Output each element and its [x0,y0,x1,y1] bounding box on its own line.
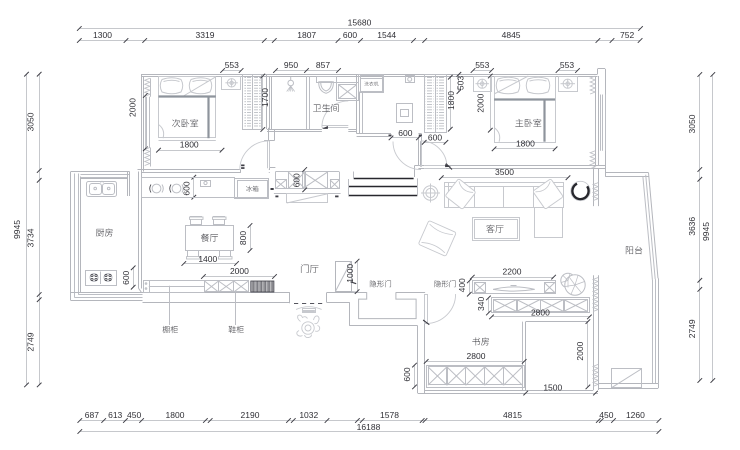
partition frame [348,179,350,197]
bed2 outline [159,77,216,138]
partition bar 3 [349,195,418,197]
svg-text:2000: 2000 [475,93,485,112]
label 隐形门 foyer [370,280,391,287]
dim overall top 15680 [79,28,640,30]
door bathroom arc [322,101,348,127]
niche rect [359,292,417,318]
label 门厅 [301,264,319,273]
svg-text:1032: 1032 [299,410,318,420]
label 厨房 [96,228,113,236]
nightstand master left [474,77,492,92]
dim 600 dining rot [193,177,195,197]
nightstand master right [559,77,578,92]
sofa seats [474,187,476,207]
wardrobe master [425,75,447,133]
wall living-balcony window mid [593,275,595,318]
svg-text:3500: 3500 [495,167,514,177]
wall bedroom2 door jamb [268,128,270,141]
svg-text:600: 600 [182,181,192,195]
door bedroom2 arc [240,141,269,170]
dim 2000 master [490,76,492,130]
foyer mirror [287,194,328,203]
dim 2000 bedroom2 [145,96,147,149]
svg-text:1700: 1700 [260,88,270,107]
wall bathroom divider [306,76,308,129]
svg-text:3636: 3636 [687,217,697,236]
wall foyer-study step [327,302,349,304]
wall kitchen right [138,172,140,289]
door bathroom arrow [322,126,328,129]
svg-text:450: 450 [599,410,613,420]
bed master quilt vertical [543,99,545,141]
dim 1800 master wardrobe [450,77,452,129]
svg-text:1544: 1544 [377,30,396,40]
dim 2800 study [426,361,524,363]
svg-text:687: 687 [85,410,99,420]
balcony corner box [612,369,642,388]
wall above niche right [396,292,425,294]
shaft box bathroom [337,83,359,101]
dim 1400 dining [184,263,237,265]
dim overall right 9945 [712,75,714,381]
window hatch left bedroom lower [145,148,150,166]
label 餐厅 [201,234,218,242]
svg-text:503: 503 [456,76,466,90]
svg-text:9945: 9945 [701,222,711,241]
entrance canopy [296,307,322,310]
dim 553 master right nightstand [558,70,578,72]
svg-text:1000: 1000 [345,264,355,283]
wall kitchen door jamb [127,172,129,197]
svg-text:400: 400 [457,278,467,292]
svg-text:752: 752 [620,30,634,40]
dim chain bottom [80,420,659,422]
fridge [235,179,269,199]
svg-text:1800: 1800 [180,140,199,150]
partition bar 1 [354,178,414,180]
bed2 quilt line [159,95,216,97]
leader 橱柜 [169,286,171,325]
dim chain right [699,75,701,381]
svg-text:800: 800 [238,231,248,245]
label 次卧室 [172,119,198,127]
svg-text:600: 600 [398,128,412,138]
dim 1000 column [357,261,359,292]
shoe cabinet hatch [251,281,274,292]
corridor cabinet [397,104,413,123]
dim overall bottom 16188 [80,431,659,433]
window hatch master lower [590,151,595,169]
svg-text:1807: 1807 [297,30,316,40]
label 冰箱 [246,186,258,192]
corridor small box [406,76,415,83]
sofa chaise [535,208,563,238]
svg-text:4815: 4815 [503,410,522,420]
svg-text:1260: 1260 [626,410,645,420]
balcony glazing right vertical [658,278,660,384]
label 鞋柜 [229,326,244,333]
bed master corner fold [494,128,500,142]
label 阳台 [626,246,642,254]
window glazing left bedroom [146,97,148,148]
svg-text:450: 450 [127,410,141,420]
window hatch study right [593,364,598,386]
dim 600 corridor [391,137,418,139]
rug living [473,218,520,241]
bed master outline [495,77,556,143]
svg-text:3050: 3050 [26,112,36,131]
window hatch master upper [590,76,595,94]
dining stool 1 [152,184,161,193]
svg-text:2000: 2000 [230,266,249,276]
bed2 pillow 2 [189,78,212,94]
svg-text:1800: 1800 [166,410,185,420]
foyer cabinet small x right [331,180,340,189]
bed2 footboard [159,140,216,142]
foyer under line [274,193,341,195]
dim 600 foyer [304,170,306,190]
door master threshold [424,165,446,167]
laundry top small lines [361,78,383,80]
wall kitchen top band [71,171,130,173]
foyer cabinet big x 2 [303,172,328,189]
bed2 quilt vertical [207,97,209,139]
dim 2800 shelf [492,316,590,318]
wall living-balcony window upper [593,169,595,207]
svg-text:600: 600 [343,30,357,40]
label 洗衣机 [364,82,378,86]
svg-text:600: 600 [428,133,442,143]
wall study right [593,319,595,391]
bed2 fold diagonal [184,77,216,96]
study bookshelf [427,366,525,388]
wall study inner vertical [525,322,527,390]
wall laundry right of bath [356,74,358,134]
door living top-left arc [393,142,421,170]
bed master pillow 1 [496,77,520,94]
door study arrow [423,320,429,325]
wall balcony top [605,172,648,174]
shower head [288,80,294,86]
wall study left [417,326,419,393]
wall foyer bottom [71,292,290,294]
sofa armrest left [448,183,450,208]
dim chain left [39,74,41,385]
dim 950 857 bathroom [276,70,339,72]
door master arrow [445,164,451,167]
door study arc [426,294,455,323]
dim 2000 cabinet [203,276,274,278]
wall kitchen bottom bay [71,300,143,302]
entrance dashes [294,303,298,305]
dim 400 tv [469,281,471,294]
dining chair bottom 2 [220,251,231,259]
dining table [186,226,234,251]
svg-text:2190: 2190 [241,410,260,420]
dim chain top row [79,40,640,42]
foyer cabinet small x left [276,180,287,189]
dim 3500 living [441,177,568,179]
label 客厅 [486,225,503,233]
svg-text:2749: 2749 [26,332,36,351]
dim overall left 9945 [26,74,28,385]
label 橱柜 [163,326,178,333]
dim 2200 tv [472,277,553,279]
svg-text:600: 600 [121,270,131,284]
nightstand bed2 [222,77,241,90]
wall living top left step [415,165,419,167]
shoe cabinet x 2 [219,281,234,292]
svg-text:2000: 2000 [128,98,138,117]
dim 1700 wardrobe2 [262,76,264,130]
foyer wall marks [275,196,278,198]
svg-text:613: 613 [108,410,122,420]
svg-text:4845: 4845 [502,30,521,40]
master window glazing [600,95,602,151]
door bedroom2 leaf [267,141,269,169]
svg-text:15680: 15680 [348,18,372,28]
svg-text:857: 857 [316,60,330,70]
window hatch living right upper [593,183,598,201]
foyer cabinet big x 1 [289,172,306,189]
partition bar 2 [349,186,418,188]
svg-text:3319: 3319 [196,30,215,40]
entrance figure [297,315,320,338]
svg-text:2800: 2800 [467,351,486,361]
foyer cabinet frame [275,171,339,173]
dim 1800 bedroom2 [159,150,223,152]
dim 600 kitchen [133,268,135,287]
dining chair top 2 [214,217,225,225]
sofa back [445,183,564,208]
entrance right jamb [326,293,328,303]
svg-text:1500: 1500 [543,383,562,393]
svg-text:3734: 3734 [26,228,36,247]
cabinet band frame [143,280,204,282]
tv set [493,287,535,291]
door bathroom leaf [322,127,348,129]
svg-text:1400: 1400 [198,254,217,264]
svg-text:16188: 16188 [357,422,381,432]
door study leaf [425,295,428,324]
svg-text:1300: 1300 [93,30,112,40]
dim 553 left nightstand [223,70,242,72]
svg-text:1800: 1800 [516,139,535,149]
svg-text:2800: 2800 [531,308,550,318]
plants pair [561,273,585,295]
dim 1800 master bed [494,148,555,150]
svg-text:553: 553 [475,60,489,70]
door master arc [421,141,447,167]
bed2 corner fold [159,125,164,139]
side table flower [423,186,438,201]
bed master quilt line [494,98,555,100]
wall bathroom bottom [267,129,322,131]
svg-text:1578: 1578 [380,410,399,420]
wall balcony bottom [599,383,659,385]
fridge wall tick [271,188,274,190]
toilet [317,77,337,83]
label 卫生间 [313,104,339,112]
wall master right window [595,76,597,165]
wall left bedroom [141,74,143,172]
svg-text:950: 950 [284,60,298,70]
dim 340 shelf [488,298,490,313]
svg-text:553: 553 [225,60,239,70]
wall kitchen left bay [70,172,72,301]
svg-text:600: 600 [291,173,301,187]
wall right outer upper [605,69,607,171]
door bedroom2 stop marks [241,165,244,167]
washing machine [359,75,384,93]
shoe cabinet x 3 [234,281,249,292]
svg-text:2200: 2200 [503,267,522,277]
svg-text:553: 553 [560,60,574,70]
floor pillow large [418,220,456,256]
dim 600 master door [424,142,446,144]
dim 2000 study right [587,322,589,387]
shoe cabinet x 1 [205,281,219,292]
svg-text:2749: 2749 [687,319,697,338]
label 主卧室 [515,119,541,127]
corridor bottom opening ticks [389,135,392,137]
dim 503 master [458,74,460,91]
dim 800 dining [250,226,252,251]
dining band top line [142,177,236,179]
wall master bottom [418,165,424,167]
bed master fold diagonal [494,76,528,94]
dining chair bottom 1 [188,251,199,259]
bed master pillow 2 [526,77,550,94]
dim 553 master left nightstand [473,70,492,72]
dining small box [201,181,211,187]
wall study bottom [418,393,598,395]
wall laundry bottom [357,133,391,135]
dining band bottom line [142,197,238,199]
svg-text:600: 600 [402,367,412,381]
window hatch left bedroom upper [145,78,150,96]
label 隐形门 study [434,280,455,287]
label 书房 [472,337,489,345]
sofa pillow left [445,179,476,210]
wall corridor bottom [138,169,241,171]
wall hall bottom right seg [418,133,421,135]
sofa pillow right [533,179,564,210]
tv cabinet [473,281,556,294]
dim 1500 study [526,393,596,395]
window hatch living right mid [593,278,598,312]
door master leaf [420,141,422,167]
svg-text:3050: 3050 [687,114,697,133]
dining stool 2 [172,184,181,193]
svg-text:9945: 9945 [12,220,22,239]
svg-text:1800: 1800 [446,91,456,110]
partition arrow [351,282,357,284]
wall top outer [142,74,598,76]
wall column foyer [336,262,352,292]
svg-text:340: 340 [476,297,486,311]
kitchen stove [86,271,117,286]
wall study inner horizontal [526,321,588,323]
kitchen sink [87,182,117,197]
bed2 pillow 1 [160,78,183,94]
wardrobe bedroom2 [243,75,262,130]
leader 鞋柜 [235,293,237,325]
round table black [572,184,588,200]
dim 600 study [414,365,416,387]
dining chair top 1 [191,217,202,225]
balcony glazing slant [649,173,659,279]
svg-text:2000: 2000 [575,341,585,360]
wall entrance band small [327,302,336,304]
bookshelf living [492,298,590,313]
wall bathroom left [266,74,268,129]
